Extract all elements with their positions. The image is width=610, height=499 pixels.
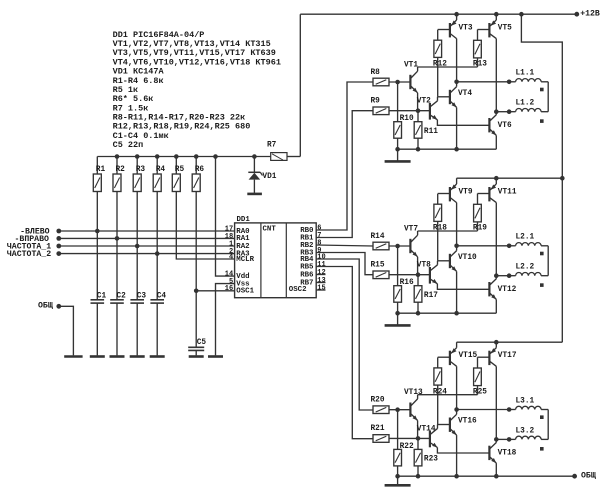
winding mark L3.2 — [540, 447, 544, 451]
ground bar under C5 — [189, 355, 204, 358]
node ОБЩ left — [56, 304, 61, 309]
node -ВПРАВО — [56, 236, 61, 241]
transistor VT14 — [417, 425, 490, 454]
wire VT1 collector to R13 — [418, 66, 478, 68]
wire R20 to VT13 base — [389, 407, 410, 412]
svg-text:R2: R2 — [116, 166, 126, 174]
node ЧАСТОТА_1 — [56, 244, 61, 249]
svg-text:ОБЩ: ОБЩ — [581, 472, 596, 481]
inductor L2.1 — [509, 234, 548, 246]
ground bar under C1 — [90, 355, 105, 358]
resistor R7 — [267, 141, 300, 160]
svg-text:R6: R6 — [195, 166, 205, 174]
resistor R23 — [414, 438, 438, 476]
svg-text:L1.1: L1.1 — [516, 70, 535, 78]
svg-text:R3: R3 — [136, 166, 146, 174]
capacitor C5 — [188, 291, 206, 356]
wire rail feed right side — [519, 12, 562, 342]
inductor L3.2 — [509, 427, 548, 439]
svg-text:15: 15 — [317, 284, 325, 292]
wire +12V local rail stage VT13 — [457, 340, 563, 345]
capacitor C3 — [130, 292, 146, 355]
wire rail left drop to R7 — [299, 14, 301, 156]
capacitor C4 — [150, 292, 166, 355]
wire +12V local rail stage VT7 — [457, 176, 565, 181]
svg-text:11: 11 — [317, 261, 325, 269]
svg-text:VD1: VD1 — [262, 173, 276, 181]
svg-text:4: 4 — [229, 253, 233, 261]
resistor R1 — [93, 157, 105, 192]
resistor R12 — [433, 30, 447, 97]
svg-text:DD1: DD1 — [237, 216, 251, 224]
wire RB1 to R9 — [316, 111, 373, 238]
pin stub RB6 — [316, 274, 325, 276]
wire L3.1 to L3.2 join — [547, 410, 549, 440]
wire VT7 collector to R19 — [418, 230, 478, 232]
label CNT — [263, 225, 277, 233]
transistor VT12 — [489, 276, 516, 314]
resistor R13 — [473, 30, 487, 69]
transistor VT10 — [450, 246, 477, 313]
ground bar Vss — [208, 355, 223, 358]
input label -ВПРАВО — [15, 235, 49, 244]
svg-text:VT1: VT1 — [404, 61, 418, 69]
IC DD1 left pin labels — [225, 225, 255, 295]
transistor VT11 — [478, 178, 517, 276]
resistor R22 — [394, 410, 414, 477]
node ЧАСТОТА_2 — [56, 251, 61, 256]
transistor VT6 — [489, 112, 512, 150]
resistor R21 — [371, 425, 390, 442]
svg-text:C5 22п: C5 22п — [113, 140, 144, 150]
svg-text:OSC2: OSC2 — [289, 286, 307, 294]
svg-text:R5: R5 — [175, 166, 185, 174]
parts list text block — [113, 30, 281, 150]
wire R5 to MCLR — [176, 192, 234, 260]
transistor VT5 — [478, 14, 513, 112]
svg-text:VT9: VT9 — [459, 189, 473, 197]
wire Vdd feed — [216, 157, 235, 277]
transistor VT15 — [438, 342, 478, 409]
svg-text:12: 12 — [317, 269, 325, 277]
svg-text:L3.2: L3.2 — [516, 427, 535, 435]
wire emitter bottom row stage VT1 — [395, 147, 496, 152]
svg-text:VT5: VT5 — [498, 25, 512, 33]
wire R3 column — [135, 192, 140, 300]
wire L1.1 to L1.2 join — [547, 82, 549, 112]
+12V power rail — [300, 12, 579, 17]
resistor R15 — [371, 262, 390, 279]
ground stage VT7 — [385, 313, 411, 325]
wire VT10 base — [438, 260, 450, 262]
wire R9 to VT2 base — [389, 108, 429, 113]
transistor VT1 — [404, 61, 418, 110]
svg-text:R18: R18 — [433, 225, 447, 233]
svg-text:VT7: VT7 — [404, 225, 418, 233]
wire R21 to VT14 base — [389, 436, 429, 441]
pin stub RB7 — [316, 282, 325, 284]
wire R1-R6 top bus — [97, 154, 270, 159]
svg-text:R12: R12 — [433, 61, 447, 69]
svg-text:R17: R17 — [424, 292, 438, 300]
svg-text:MCLR: MCLR — [236, 256, 254, 264]
winding mark L3.1 — [540, 415, 544, 419]
svg-text:L1.2: L1.2 — [516, 100, 535, 108]
resistor R10 — [394, 82, 414, 149]
zener diode VD1 — [248, 157, 276, 193]
wire ОБЩ left — [59, 306, 74, 355]
transistor VT17 — [478, 342, 517, 439]
svg-text:VT14: VT14 — [417, 425, 436, 433]
transistor VT3 — [438, 14, 473, 82]
wire -ВЛЕВО — [59, 230, 235, 232]
label ОБЩ right — [581, 472, 596, 481]
inductor L3.1 — [509, 397, 548, 409]
wire R6 to OSC1 — [194, 192, 235, 294]
wire RB5 to R21 — [316, 267, 373, 439]
wire R1 column — [95, 192, 100, 300]
transistor VT9 — [438, 178, 473, 246]
svg-text:R9: R9 — [371, 98, 381, 106]
svg-text:L3.1: L3.1 — [516, 397, 535, 405]
wire VT17 collector node — [494, 437, 511, 442]
svg-text:RB5: RB5 — [300, 263, 314, 271]
svg-text:R22: R22 — [400, 443, 414, 451]
svg-text:L2.2: L2.2 — [516, 264, 535, 272]
resistor R11 — [414, 111, 438, 150]
IC DD1 right pin labels — [289, 224, 326, 294]
resistor R16 — [394, 246, 414, 313]
wire R4 column — [155, 192, 160, 300]
winding mark L2.2 — [540, 283, 544, 287]
resistor R3 — [133, 157, 145, 192]
svg-text:CNT: CNT — [263, 225, 277, 233]
resistor R14 — [371, 233, 390, 250]
svg-text:R4: R4 — [156, 166, 166, 174]
resistor R18 — [433, 194, 447, 261]
svg-text:RB6: RB6 — [300, 271, 314, 279]
capacitor C1 — [91, 292, 107, 355]
svg-text:VT17: VT17 — [498, 352, 517, 360]
inductor L1.1 — [509, 70, 548, 82]
inductor L1.2 — [509, 100, 548, 112]
resistor R19 — [473, 194, 487, 233]
svg-text:R10: R10 — [400, 115, 414, 123]
wire RB0 to R8 — [316, 82, 373, 230]
winding mark L1.1 — [540, 88, 544, 92]
wire Vss to ground — [216, 284, 235, 356]
svg-text:R20: R20 — [371, 397, 385, 405]
wire rail dots stage 1 — [454, 12, 498, 17]
ground stage VT1 — [385, 149, 411, 161]
input label ЧАСТОТА_2 — [7, 250, 51, 259]
svg-text:VT15: VT15 — [459, 352, 478, 360]
svg-text:R24: R24 — [433, 388, 447, 396]
svg-text:R16: R16 — [400, 279, 414, 287]
wire VT16 base — [438, 424, 450, 426]
svg-text:+12В: +12В — [580, 9, 600, 18]
svg-text:R11: R11 — [424, 128, 438, 136]
svg-text:R15: R15 — [371, 262, 385, 270]
input label ОБЩ — [38, 301, 53, 310]
svg-text:VT13: VT13 — [404, 389, 423, 397]
ground stage VT13 — [385, 476, 411, 485]
transistor VT16 — [450, 410, 477, 477]
svg-text:VT4: VT4 — [458, 90, 472, 98]
ground bar VD1 — [247, 193, 262, 196]
transistor VT7 — [404, 225, 418, 274]
svg-text:VT11: VT11 — [498, 189, 517, 197]
svg-text:VT3: VT3 — [459, 25, 473, 33]
svg-text:VT12: VT12 — [498, 286, 517, 294]
svg-text:ЧАСТОТА_2: ЧАСТОТА_2 — [7, 250, 51, 259]
svg-text:VT2: VT2 — [417, 98, 431, 106]
wire RB4 to R20 — [316, 259, 373, 410]
svg-text:ОБЩ: ОБЩ — [38, 301, 53, 310]
svg-text:R14: R14 — [371, 233, 385, 241]
svg-text:VT10: VT10 — [458, 254, 477, 262]
wire RB2 to R14 — [316, 245, 373, 246]
resistor R6 — [192, 157, 204, 192]
wire VT11 collector node — [494, 273, 511, 278]
wire L2.1 to L2.2 join — [547, 246, 549, 276]
node -ВЛЕВО — [56, 229, 61, 234]
wire VT5 collector node — [494, 109, 511, 114]
ground bar under C4 — [150, 355, 165, 358]
svg-text:16: 16 — [225, 285, 233, 293]
transistor VT18 — [489, 439, 516, 476]
svg-text:R25: R25 — [473, 388, 487, 396]
wire VT4 base — [438, 96, 450, 98]
input label -ВЛЕВО — [20, 228, 50, 237]
wire R8 to VT1 base — [389, 80, 410, 85]
wire emitter bottom row stage VT7 — [395, 311, 496, 316]
svg-text:R1: R1 — [96, 166, 106, 174]
wire ЧАСТОТА_1 — [59, 245, 235, 247]
wire ЧАСТОТА_2 — [59, 253, 235, 255]
svg-text:R7: R7 — [267, 141, 277, 149]
wire RB3 to R15 — [316, 253, 373, 275]
svg-text:C5: C5 — [197, 339, 207, 347]
ground bar under C2 — [110, 355, 125, 358]
op-amp U1 IC DD1 PIC16F84A box — [235, 223, 317, 298]
svg-text:VT16: VT16 — [458, 418, 477, 426]
winding mark L1.2 — [540, 119, 544, 123]
resistor R5 — [172, 157, 184, 192]
wire R15 to VT8 base — [389, 272, 429, 277]
svg-text:R13: R13 — [473, 61, 487, 69]
wire VT9 collector node — [454, 244, 511, 249]
wire VT3 collector node — [454, 80, 511, 85]
transistor VT13 — [404, 389, 423, 438]
svg-text:L2.1: L2.1 — [516, 234, 535, 242]
wire R2 column — [115, 192, 120, 300]
resistor R17 — [414, 275, 438, 314]
winding mark L2.1 — [540, 252, 544, 256]
svg-text:OSC1: OSC1 — [236, 288, 254, 296]
ground bar ОБЩ left — [64, 355, 82, 358]
pin stub OSC2 — [316, 289, 325, 291]
svg-text:R19: R19 — [473, 225, 487, 233]
svg-text:R8: R8 — [371, 69, 381, 77]
ground bar under C3 — [130, 355, 145, 358]
svg-text:VT18: VT18 — [498, 450, 517, 458]
capacitor C2 — [110, 292, 126, 355]
resistor R20 — [371, 397, 390, 414]
wire emitter bottom row stage VT13 — [395, 474, 577, 479]
wire -ВПРАВО — [59, 237, 235, 239]
svg-text:VT8: VT8 — [417, 262, 431, 270]
input label ЧАСТОТА_1 — [7, 243, 51, 252]
resistor R9 — [371, 98, 390, 115]
label +12V — [580, 9, 600, 18]
resistor R24 — [433, 357, 447, 424]
svg-text:R23: R23 — [424, 456, 438, 464]
resistor R4 — [153, 157, 165, 192]
svg-text:R21: R21 — [371, 425, 385, 433]
inductor L2.2 — [509, 264, 548, 276]
resistor R8 — [371, 69, 390, 86]
transistor VT8 — [417, 261, 490, 290]
label DD1 — [237, 216, 251, 224]
wire VT15 collector node — [454, 407, 511, 412]
resistor R25 — [473, 357, 487, 396]
transistor VT2 — [417, 97, 490, 126]
wire R14 to VT7 base — [389, 244, 410, 249]
resistor R2 — [113, 157, 125, 192]
transistor VT4 — [450, 82, 472, 149]
wire VT13 collector to R25 — [418, 394, 478, 396]
svg-text:VT6: VT6 — [498, 122, 512, 130]
